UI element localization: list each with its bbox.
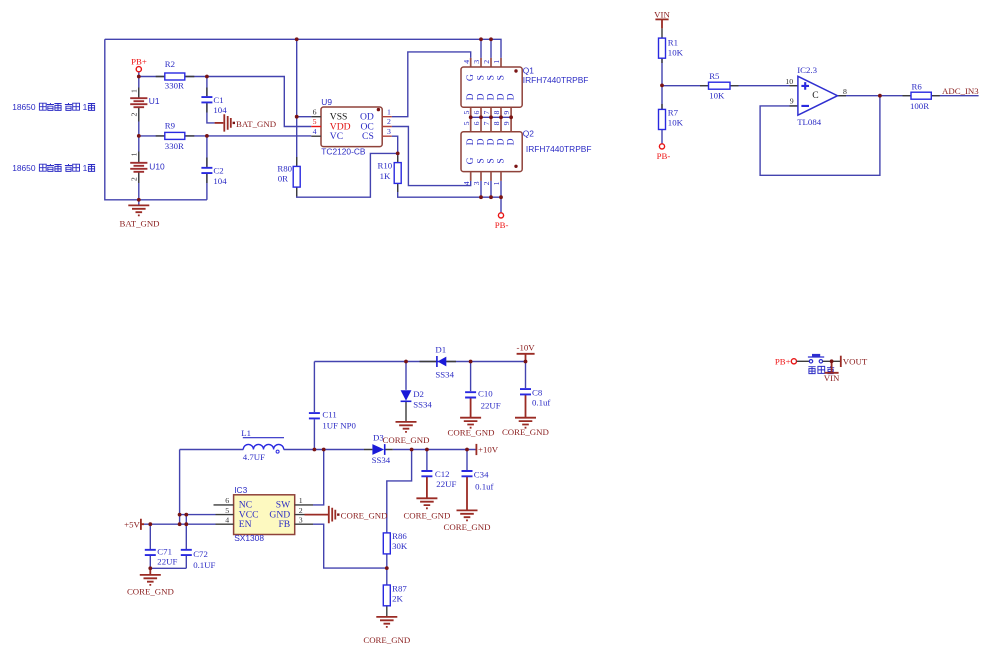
stub C2 leads <box>206 158 208 184</box>
svg-text:PB-: PB- <box>657 151 671 161</box>
svg-text:5: 5 <box>462 111 471 115</box>
stub R6 leads <box>903 95 940 97</box>
svg-text:C: C <box>812 90 818 101</box>
wire Q2 pin3 drop <box>480 181 482 197</box>
svg-text:2: 2 <box>130 113 139 117</box>
capacitor C1 <box>201 97 212 102</box>
wire C1 lower to BAT_GND <box>207 103 215 123</box>
svg-text:CORE_GND: CORE_GND <box>444 522 491 532</box>
svg-text:SX1308: SX1308 <box>234 533 264 543</box>
svg-text:BAT_GND: BAT_GND <box>236 119 276 129</box>
svg-text:D: D <box>506 93 517 100</box>
wire C8 to ground <box>525 395 527 418</box>
svg-text:S: S <box>496 158 507 163</box>
ground BAT_GND <box>119 200 159 229</box>
svg-text:R9: R9 <box>165 121 176 131</box>
stub U1 leads <box>138 88 140 122</box>
wire R10 top <box>397 153 399 162</box>
svg-text:4.7UF: 4.7UF <box>243 452 265 462</box>
svg-text:PB-: PB- <box>495 220 509 230</box>
battery U1 <box>130 98 147 107</box>
wire IC3 left drop <box>179 450 181 525</box>
resistor R1 <box>659 38 666 58</box>
inductor L1 <box>241 428 284 462</box>
svg-text:R86: R86 <box>392 531 407 541</box>
resistor R6 <box>911 92 931 99</box>
svg-text:2: 2 <box>299 506 303 515</box>
resistor R10 <box>394 163 401 184</box>
svg-text:R87: R87 <box>392 583 407 593</box>
svg-text:6: 6 <box>225 496 229 505</box>
wire S bus between Q1 Q2 <box>471 116 511 118</box>
svg-text:8: 8 <box>492 111 501 115</box>
svg-text:1: 1 <box>492 181 501 185</box>
capacitor C8 <box>520 387 550 407</box>
label 18650 battery box row 2 <box>12 163 95 173</box>
svg-text:C34: C34 <box>474 470 489 480</box>
resistor R2 <box>165 73 185 80</box>
chip IC3 SX1308 <box>214 485 314 543</box>
wire R86 feed jog <box>387 450 412 533</box>
svg-text:2: 2 <box>482 60 491 64</box>
resistor R87 <box>383 583 407 605</box>
svg-text:1K: 1K <box>380 171 391 181</box>
wire D2 branch <box>405 362 407 390</box>
svg-text:IC2.3: IC2.3 <box>797 65 817 75</box>
resistor R86 <box>383 531 408 554</box>
wire C12 to ground <box>426 477 428 498</box>
svg-text:S: S <box>496 75 507 80</box>
wire C34 branch <box>466 450 468 471</box>
wire Q1 pin2 riser <box>490 39 492 58</box>
wire R87 to ground <box>386 606 388 617</box>
svg-text:R7: R7 <box>668 107 679 117</box>
stub R1 leads <box>661 58 663 109</box>
stub C1 leads <box>206 88 208 113</box>
wire R86 to R87 <box>386 554 388 585</box>
wire U9 CS to R10 <box>392 136 398 153</box>
wire top rail BAT_GND net <box>105 39 501 58</box>
svg-text:9: 9 <box>790 97 794 106</box>
wire mid rail left <box>180 449 244 451</box>
power port +10V <box>476 444 498 455</box>
stub R80 leads <box>296 157 298 196</box>
ground CORE_GND under C8 <box>502 418 549 437</box>
label 18650 battery box row 1 <box>12 102 95 112</box>
svg-text:104: 104 <box>213 105 227 115</box>
wire D2 to ground <box>405 402 407 422</box>
wire mid rail right <box>284 449 477 451</box>
stub U10 leads <box>138 152 140 184</box>
svg-text:30K: 30K <box>392 541 408 551</box>
port PB- divider <box>659 144 664 149</box>
svg-text:-10V: -10V <box>517 343 536 353</box>
power port +5V <box>124 519 144 530</box>
svg-text:R5: R5 <box>709 71 720 81</box>
svg-text:2: 2 <box>130 177 139 181</box>
svg-text:3: 3 <box>299 516 303 525</box>
svg-text:CORE_GND: CORE_GND <box>403 511 450 521</box>
svg-text:BAT_GND: BAT_GND <box>119 219 159 229</box>
power port VIN top <box>654 10 670 29</box>
capacitor C71 <box>145 547 178 567</box>
wire VCC line <box>180 514 216 516</box>
svg-text:CORE_GND: CORE_GND <box>383 435 430 445</box>
wire PB+ to battery <box>138 72 140 98</box>
svg-text:SS34: SS34 <box>413 399 432 409</box>
node dots block A <box>137 75 141 79</box>
svg-text:R6: R6 <box>912 81 923 91</box>
svg-text:R80: R80 <box>277 164 292 174</box>
stub R5 leads <box>700 85 739 87</box>
wire R10 bottom to PB- bus <box>398 183 501 197</box>
svg-text:18650: 18650 <box>12 102 36 112</box>
wire left border <box>105 39 207 200</box>
capacitor C2 <box>201 168 212 173</box>
node divider junction <box>660 84 664 88</box>
diode D3 SS34 <box>372 432 391 465</box>
svg-text:R2: R2 <box>165 59 175 69</box>
svg-text:CORE_GND: CORE_GND <box>127 586 174 596</box>
resistor R80 <box>293 166 300 187</box>
ground CORE_GND under C34 <box>444 510 491 531</box>
svg-text:CORE_GND: CORE_GND <box>502 427 549 437</box>
svg-text:CORE_GND: CORE_GND <box>363 635 410 645</box>
svg-text:1: 1 <box>299 496 303 505</box>
svg-text:4: 4 <box>313 127 317 136</box>
ground CORE_GND under C10 <box>448 418 495 438</box>
wire C72 riser <box>185 515 187 550</box>
svg-text:C71: C71 <box>157 547 172 557</box>
wire R1 to R7 divider <box>661 58 663 109</box>
svg-text:+10V: +10V <box>478 445 499 455</box>
svg-text:1: 1 <box>492 60 501 64</box>
svg-text:8: 8 <box>492 121 501 125</box>
op-amp IC2.3 TL084 <box>785 65 847 127</box>
wire VIN to R1 <box>661 28 663 38</box>
svg-text:7: 7 <box>482 121 491 125</box>
svg-text:6: 6 <box>472 111 481 115</box>
svg-text:L1: L1 <box>241 428 251 438</box>
ground CORE_GND under R87 <box>363 617 410 645</box>
wire PB+ to switch <box>797 360 810 362</box>
svg-text:CS: CS <box>362 131 374 142</box>
svg-text:PB+: PB+ <box>775 357 791 367</box>
wire R5 to opamp plus input <box>730 85 798 87</box>
svg-text:104: 104 <box>213 176 227 186</box>
port VIN below switch <box>824 361 840 383</box>
svg-text:4: 4 <box>462 181 471 185</box>
wire C10 branch <box>470 362 472 392</box>
wire R80 bottom jog <box>297 153 398 197</box>
svg-text:FB: FB <box>278 519 290 530</box>
stub D1 leads <box>420 361 457 363</box>
stub R10 leads <box>397 156 399 193</box>
capacitor C12 <box>421 469 456 489</box>
wire C11 riser <box>313 362 315 450</box>
svg-text:22UF: 22UF <box>481 400 501 410</box>
stub R9 leads <box>156 135 195 137</box>
svg-text:D2: D2 <box>413 389 424 399</box>
svg-text:C11: C11 <box>322 410 336 420</box>
svg-text:TC2120-CB: TC2120-CB <box>321 146 366 156</box>
wire C71 C72 bottoms <box>150 556 186 569</box>
svg-text:U9: U9 <box>321 97 332 107</box>
wire VSS bus vertical <box>296 39 298 166</box>
svg-text:22UF: 22UF <box>436 479 456 489</box>
svg-text:+5V: +5V <box>124 519 140 529</box>
svg-text:D1: D1 <box>435 344 446 354</box>
wire C34 to ground <box>466 477 468 511</box>
svg-text:VIN: VIN <box>824 373 840 383</box>
node output junction <box>878 94 882 98</box>
power port BAT_GND bar style <box>215 114 276 131</box>
wire R7 to PB- <box>661 130 663 144</box>
wire R6 to ADC_IN3 <box>931 95 978 97</box>
svg-text:1: 1 <box>130 89 139 93</box>
wire battery mid column <box>138 107 140 163</box>
svg-text:0.1uf: 0.1uf <box>532 398 550 408</box>
wire switch to VOUT <box>823 360 841 362</box>
svg-text:R1: R1 <box>668 38 678 48</box>
svg-text:U1: U1 <box>149 96 160 106</box>
svg-text:5: 5 <box>225 506 229 515</box>
wire Q2 pin2 drop <box>490 181 492 197</box>
wire feedback loop <box>760 96 880 176</box>
wire Q1 pin3 riser <box>480 39 482 58</box>
svg-text:1: 1 <box>387 107 391 116</box>
svg-text:330R: 330R <box>165 81 184 91</box>
svg-text:4: 4 <box>462 60 471 64</box>
svg-text:0.1UF: 0.1UF <box>193 560 215 570</box>
svg-text:8: 8 <box>843 87 847 96</box>
wire C10 to ground <box>470 398 472 418</box>
port PB- bottom <box>498 213 503 218</box>
svg-text:C8: C8 <box>532 387 543 397</box>
svg-text:1: 1 <box>83 163 88 173</box>
svg-text:2: 2 <box>387 117 391 126</box>
wire -10V top rail <box>314 361 525 363</box>
svg-text:1UF NP0: 1UF NP0 <box>322 421 356 431</box>
svg-text:R10: R10 <box>378 161 393 171</box>
svg-text:7: 7 <box>482 111 491 115</box>
svg-text:3: 3 <box>472 60 481 64</box>
wire divider to R5 <box>662 85 709 87</box>
resistor R7 <box>659 109 666 129</box>
mosfet Q2 IRFH7440TRPBF <box>461 121 592 185</box>
battery U10 <box>130 163 147 172</box>
svg-text:5: 5 <box>313 117 317 126</box>
ground CORE_GND under D2 <box>383 422 430 445</box>
svg-text:SS34: SS34 <box>372 455 391 465</box>
svg-text:D: D <box>506 138 517 145</box>
svg-text:CORE_GND: CORE_GND <box>448 427 495 437</box>
svg-text:VC: VC <box>330 131 343 142</box>
capacitor C10 <box>465 389 501 411</box>
svg-text:CORE_GND: CORE_GND <box>341 511 388 521</box>
svg-text:C72: C72 <box>193 549 208 559</box>
svg-text:IRFH7440TRPBF: IRFH7440TRPBF <box>526 144 592 154</box>
wire FB route <box>313 524 387 568</box>
svg-text:C1: C1 <box>213 95 223 105</box>
wire C2 upper <box>206 136 208 167</box>
svg-text:IC3: IC3 <box>234 485 247 495</box>
svg-text:1: 1 <box>83 102 88 112</box>
svg-text:10: 10 <box>785 77 793 86</box>
svg-text:C2: C2 <box>213 166 223 176</box>
svg-text:0R: 0R <box>278 174 288 184</box>
stub D3 leads <box>364 449 393 451</box>
stub opamp pins <box>790 86 847 106</box>
svg-text:10K: 10K <box>709 90 725 100</box>
wire U9 OD to Q1 gate <box>392 52 471 117</box>
svg-text:1: 1 <box>130 152 139 156</box>
svg-text:22UF: 22UF <box>157 557 177 567</box>
svg-text:Q1: Q1 <box>523 65 535 75</box>
svg-text:SS34: SS34 <box>435 370 454 380</box>
diode D2 SS34 <box>401 389 433 409</box>
resistor R9 <box>165 132 185 139</box>
svg-text:9: 9 <box>502 111 511 115</box>
wire C71 to ground <box>149 568 151 574</box>
ground CORE_GND under C71 <box>127 575 174 597</box>
svg-text:10K: 10K <box>668 118 684 128</box>
svg-text:100R: 100R <box>910 101 929 111</box>
wire SW pin riser <box>313 450 324 505</box>
node dots block C <box>404 360 408 364</box>
node switch output junction <box>830 359 834 363</box>
svg-text:330R: 330R <box>165 141 184 151</box>
capacitor C11 <box>309 410 357 431</box>
wire Q2 pin1 to PB- <box>500 181 502 213</box>
ground CORE_GND under C12 <box>403 498 450 520</box>
svg-text:IRFH7440TRPBF: IRFH7440TRPBF <box>523 75 589 85</box>
svg-text:Q2: Q2 <box>523 128 535 138</box>
svg-text:ADC_IN3: ADC_IN3 <box>942 86 979 96</box>
svg-text:6: 6 <box>313 107 317 116</box>
wire R2 net to U9 VDD <box>139 77 311 127</box>
svg-text:PB+: PB+ <box>131 56 147 66</box>
svg-text:10K: 10K <box>668 47 684 57</box>
wire R9 net to U9 VC <box>139 135 311 137</box>
svg-text:4: 4 <box>225 516 229 525</box>
wire C12 branch <box>426 450 428 471</box>
chip U9 TC2120-CB <box>311 97 391 156</box>
svg-text:C12: C12 <box>435 469 450 479</box>
wire C1 upper <box>206 77 208 97</box>
wire C71 riser <box>149 524 151 549</box>
wire U9 OC to Q2 gate <box>392 127 471 186</box>
svg-text:C10: C10 <box>478 389 493 399</box>
wire C8 branch <box>525 362 527 389</box>
svg-text:EN: EN <box>239 519 252 530</box>
wire C2 lower <box>206 174 208 200</box>
svg-text:VIN: VIN <box>654 10 670 20</box>
svg-text:3: 3 <box>472 181 481 185</box>
power port -10V <box>517 343 536 362</box>
svg-text:TL084: TL084 <box>797 117 822 127</box>
wire opamp output <box>838 95 912 97</box>
wire U9 pin6 <box>297 116 312 118</box>
svg-text:2: 2 <box>482 181 491 185</box>
diode D1 SS34 <box>435 344 454 379</box>
svg-text:9: 9 <box>502 121 511 125</box>
wire EN +5V line <box>144 523 216 525</box>
svg-text:5: 5 <box>462 121 471 125</box>
svg-text:18650: 18650 <box>12 163 36 173</box>
resistor R5 <box>709 82 731 89</box>
svg-text:0.1uf: 0.1uf <box>475 482 493 492</box>
capacitor C72 <box>181 549 216 570</box>
port VOUT <box>841 356 868 367</box>
switch 总电源 pushbutton <box>808 354 834 374</box>
svg-text:U10: U10 <box>149 161 165 171</box>
svg-text:2K: 2K <box>392 593 403 603</box>
stub R2 leads <box>156 76 195 78</box>
power port CORE_GND bar at IC3 GND <box>305 506 388 523</box>
svg-text:VOUT: VOUT <box>843 357 868 367</box>
svg-text:6: 6 <box>472 121 481 125</box>
mosfet Q1 IRFH7440TRPBF <box>461 58 588 132</box>
wire battery bottom column <box>138 171 140 200</box>
capacitor C34 <box>462 470 494 492</box>
svg-text:3: 3 <box>387 127 391 136</box>
